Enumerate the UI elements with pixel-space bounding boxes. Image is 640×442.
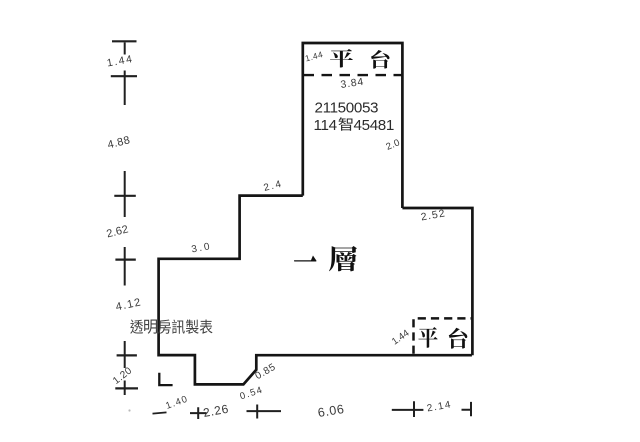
- svg-text:3.84: 3.84: [340, 76, 365, 91]
- svg-text:2.26: 2.26: [202, 402, 230, 420]
- svg-text:1.20: 1.20: [111, 365, 134, 387]
- dimension: left vertical line segments: [124, 43, 126, 396]
- svg-text:2.52: 2.52: [420, 207, 447, 223]
- svg-text:1.40: 1.40: [164, 394, 190, 412]
- text 訊 (透明房訊製表): [172, 319, 185, 333]
- wall: upper platform outline (top edge + upper side walls): [303, 43, 403, 208]
- wall: platform dashed divider: [304, 74, 403, 76]
- text 平 (upper platform): [330, 49, 353, 67]
- svg-text:4.12: 4.12: [115, 296, 143, 313]
- text 台 (upper platform): [371, 50, 390, 69]
- text 一 (一層): [294, 255, 317, 261]
- svg-text:1.44: 1.44: [106, 53, 135, 69]
- svg-text:2.0: 2.0: [385, 137, 402, 152]
- text 台 (lower platform): [449, 328, 468, 349]
- svg-text:1.44: 1.44: [304, 49, 324, 63]
- text 智 (of 114智45481): [338, 117, 352, 131]
- svg-text:45481: 45481: [354, 117, 394, 134]
- text 製 (透明房訊製表): [186, 320, 199, 334]
- svg-text:6.06: 6.06: [317, 402, 346, 420]
- dimension: left tick bars: [111, 41, 138, 388]
- svg-text:4.88: 4.88: [106, 134, 131, 151]
- wall: right step + right outer wall: [402, 208, 472, 355]
- text 房 (透明房訊製表): [158, 319, 171, 333]
- dimension: bottom-left short dash: [153, 412, 167, 413]
- wall: left stepped chain + bottom recess + diagonal + bottom wall: [159, 196, 472, 385]
- svg-text:114: 114: [314, 117, 337, 134]
- text 表 (透明房訊製表): [200, 320, 213, 334]
- svg-text:1.44: 1.44: [390, 328, 411, 348]
- smudge mark: [128, 409, 130, 411]
- svg-text:2.4: 2.4: [263, 179, 284, 194]
- dimension: bottom cross tick 2 with line: [247, 405, 282, 419]
- lower platform dashed outline: [414, 318, 472, 353]
- text 明 (透明房訊製表): [144, 320, 157, 334]
- svg-text:21150053: 21150053: [315, 100, 379, 117]
- svg-text:3.0: 3.0: [191, 241, 213, 255]
- svg-text:2.14: 2.14: [426, 399, 453, 414]
- dimension: bottom-right end tick: [462, 402, 472, 416]
- text 平 (lower platform): [418, 327, 437, 348]
- dimension: bottom cross tick 1: [190, 407, 207, 419]
- wall: door stub L bottom-left: [159, 373, 172, 385]
- svg-text:0.54: 0.54: [239, 384, 265, 402]
- text 透 (透明房訊製表): [130, 319, 143, 333]
- svg-text:2.62: 2.62: [105, 223, 129, 240]
- dimension: bottom-right line with tick: [392, 401, 424, 417]
- text 層 (一層): [329, 246, 357, 271]
